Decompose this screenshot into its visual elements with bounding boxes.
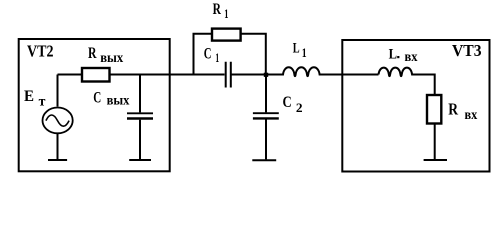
svg-text:1: 1 [302, 45, 307, 60]
sine wave [46, 115, 69, 126]
terminal bar C2 [252, 159, 276, 161]
wire below source [57, 134, 59, 160]
svg-text:вх: вх [405, 49, 418, 64]
svg-text:VT2: VT2 [27, 42, 54, 61]
resistor R_vh [427, 95, 441, 124]
box VT2 [19, 39, 170, 171]
svg-text:VT3: VT3 [452, 41, 482, 60]
wire main right with inductor L1 [231, 67, 378, 76]
svg-text:1: 1 [224, 6, 228, 21]
svg-text:C: C [204, 46, 212, 63]
svg-text:2: 2 [296, 100, 303, 115]
source E circle [43, 108, 73, 134]
node dot [264, 73, 268, 77]
svg-text:C: C [93, 90, 101, 107]
svg-text:R: R [448, 100, 458, 119]
capacitor C2 [253, 112, 279, 114]
wire main horizontal left [58, 74, 225, 76]
inductor L_vh [379, 68, 435, 94]
wire C2 lower [265, 120, 267, 160]
svg-text:R: R [213, 1, 222, 18]
wire R_vh lower [434, 125, 436, 160]
wire C_vyh branch [139, 75, 141, 113]
terminal bar R_vh [424, 159, 447, 161]
svg-text:C: C [283, 94, 292, 111]
wire E branch vertical [57, 75, 59, 107]
svg-text:1: 1 [215, 50, 219, 65]
capacitor C1 [226, 62, 231, 88]
svg-text:т: т [39, 95, 46, 110]
svg-text:E: E [24, 88, 34, 105]
terminal bar E [48, 159, 67, 161]
terminal bar C_vyh [129, 159, 151, 161]
svg-text:вх: вх [465, 107, 478, 122]
resistor R1 [212, 29, 241, 41]
resistor R_vyh [82, 68, 110, 82]
svg-text:вых: вых [100, 50, 123, 65]
wire C2 branch [265, 75, 267, 113]
svg-text:L: L [293, 41, 300, 57]
wire C_vyh lower [139, 120, 141, 160]
box VT3 [342, 40, 489, 172]
svg-text:вых: вых [107, 93, 130, 108]
wire R1 loop [194, 34, 266, 74]
svg-text:L: L [389, 47, 397, 63]
svg-text:R: R [88, 45, 97, 62]
capacitor C_vyh [127, 112, 153, 114]
